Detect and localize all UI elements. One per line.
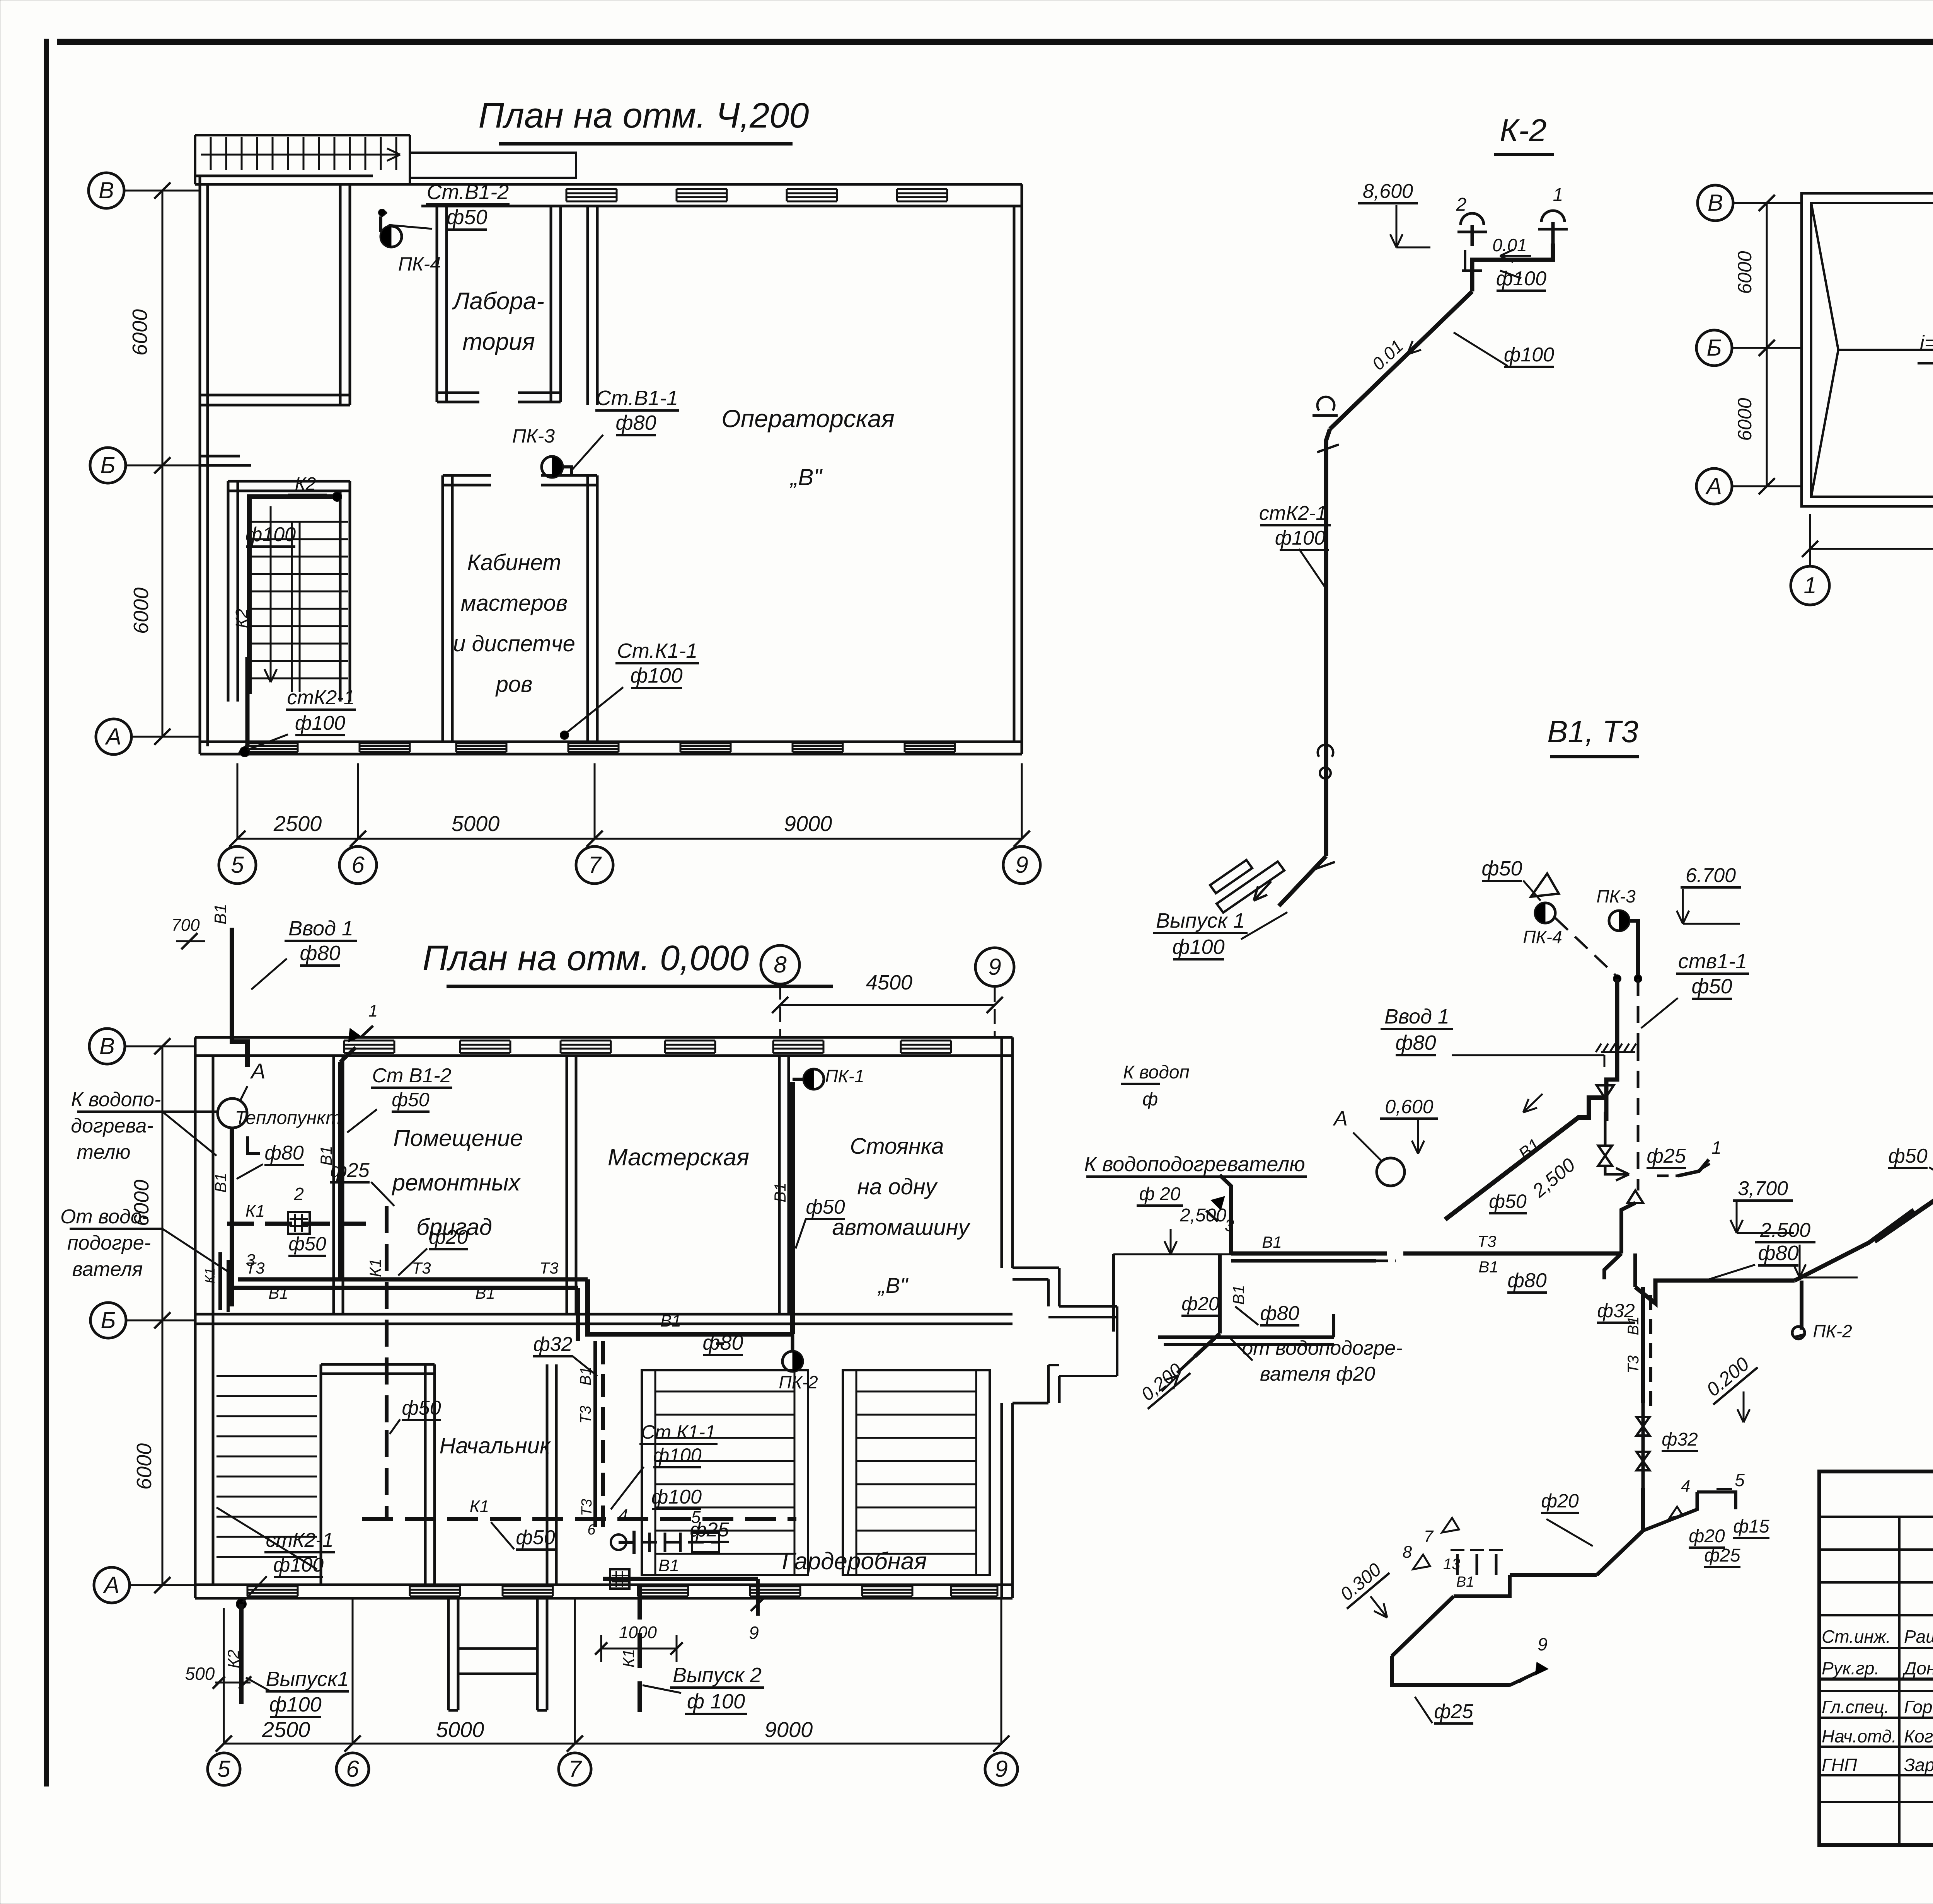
svg-text:6000: 6000 <box>128 309 152 356</box>
svg-text:„В": „В" <box>789 464 823 490</box>
svg-text:ф15: ф15 <box>1733 1516 1769 1537</box>
svg-text:ф100: ф100 <box>653 1444 701 1466</box>
svg-text:План на отм. 0,000: План на отм. 0,000 <box>423 938 749 978</box>
svg-text:ф: ф <box>1142 1089 1158 1110</box>
svg-text:Выпуск 2: Выпуск 2 <box>673 1664 762 1687</box>
svg-text:К-2: К-2 <box>1500 113 1546 148</box>
svg-text:ф80: ф80 <box>1395 1031 1436 1054</box>
svg-text:Мастерская: Мастерская <box>608 1144 749 1171</box>
svg-text:ПК-2: ПК-2 <box>1813 1321 1852 1341</box>
svg-text:Теплопункт: Теплопункт <box>235 1108 341 1128</box>
svg-text:ф20: ф20 <box>1541 1490 1579 1512</box>
svg-text:ф50: ф50 <box>1691 975 1732 998</box>
svg-text:Т3: Т3 <box>539 1259 558 1277</box>
svg-text:Зарецкий: Зарецкий <box>1904 1755 1933 1775</box>
svg-text:План на отм. Ч,200: План на отм. Ч,200 <box>478 96 809 135</box>
svg-text:Т3: Т3 <box>1625 1356 1642 1374</box>
svg-text:А: А <box>103 1572 119 1598</box>
svg-text:ф50: ф50 <box>1888 1145 1927 1167</box>
svg-text:ф25: ф25 <box>330 1159 370 1182</box>
svg-text:ф80: ф80 <box>1507 1269 1546 1292</box>
svg-text:и диспетче: и диспетче <box>453 631 575 656</box>
svg-text:13: 13 <box>1443 1556 1461 1573</box>
svg-text:В: В <box>99 1033 115 1059</box>
svg-text:ф20: ф20 <box>1181 1293 1219 1315</box>
svg-text:подогре-: подогре- <box>67 1232 151 1254</box>
svg-text:К1: К1 <box>245 1202 265 1221</box>
svg-text:Ст.В1-2: Ст.В1-2 <box>427 181 509 204</box>
svg-text:9: 9 <box>749 1623 759 1643</box>
svg-text:4: 4 <box>619 1506 628 1525</box>
svg-text:1: 1 <box>368 1001 378 1020</box>
svg-text:9: 9 <box>988 954 1001 980</box>
svg-text:Б: Б <box>100 452 115 478</box>
svg-text:телю: телю <box>77 1141 131 1163</box>
svg-text:ф100: ф100 <box>245 523 296 546</box>
svg-text:ф50: ф50 <box>806 1196 845 1218</box>
svg-text:К2: К2 <box>224 1650 242 1668</box>
svg-text:В1: В1 <box>211 904 230 925</box>
svg-text:Начальник: Начальник <box>440 1433 551 1458</box>
svg-text:8: 8 <box>1403 1543 1412 1562</box>
svg-text:4: 4 <box>1681 1477 1690 1496</box>
svg-text:В: В <box>1708 190 1723 216</box>
svg-text:ф100: ф100 <box>651 1486 702 1508</box>
svg-text:от водоподогре-: от водоподогре- <box>1242 1337 1402 1359</box>
svg-text:К водопо-: К водопо- <box>71 1088 161 1111</box>
svg-text:ПК-1: ПК-1 <box>825 1066 864 1086</box>
svg-text:Б: Б <box>101 1307 116 1333</box>
svg-text:От водо-: От водо- <box>60 1206 148 1228</box>
svg-text:2500: 2500 <box>273 811 322 836</box>
svg-text:ф100: ф100 <box>630 664 682 687</box>
svg-text:2500: 2500 <box>262 1717 310 1742</box>
svg-text:5: 5 <box>217 1756 230 1782</box>
svg-text:Донская: Донская <box>1902 1658 1933 1678</box>
svg-text:К1: К1 <box>470 1497 489 1516</box>
svg-text:ф100: ф100 <box>273 1554 324 1576</box>
svg-text:6: 6 <box>587 1522 596 1538</box>
svg-text:1000: 1000 <box>619 1623 657 1642</box>
svg-text:2: 2 <box>1456 194 1467 215</box>
svg-text:6.700: 6.700 <box>1686 864 1736 887</box>
svg-text:ф100: ф100 <box>295 712 345 734</box>
svg-text:6000: 6000 <box>1734 398 1756 441</box>
svg-text:ф32: ф32 <box>1662 1429 1698 1450</box>
svg-text:ф50: ф50 <box>1489 1190 1527 1212</box>
svg-text:В1: В1 <box>660 1311 681 1330</box>
svg-text:ПК-3: ПК-3 <box>512 425 555 447</box>
svg-text:6000: 6000 <box>130 588 153 634</box>
svg-text:„В": „В" <box>878 1273 909 1298</box>
svg-text:ф50: ф50 <box>288 1233 326 1255</box>
svg-text:9: 9 <box>1015 852 1028 878</box>
svg-text:i=0,005: i=0,005 <box>1920 331 1933 354</box>
svg-text:7: 7 <box>588 852 602 878</box>
svg-text:8,600: 8,600 <box>1363 180 1413 203</box>
svg-text:5000: 5000 <box>436 1717 484 1742</box>
svg-text:2.500: 2.500 <box>1760 1219 1810 1242</box>
svg-text:700: 700 <box>171 916 200 935</box>
svg-text:8: 8 <box>774 952 787 978</box>
svg-text:ф32: ф32 <box>533 1333 572 1356</box>
svg-text:Коган: Коган <box>1904 1726 1933 1746</box>
svg-text:ПК-4: ПК-4 <box>1523 927 1562 947</box>
svg-text:6: 6 <box>351 852 365 878</box>
svg-text:ф32: ф32 <box>1597 1300 1635 1322</box>
svg-text:0,600: 0,600 <box>1385 1096 1433 1117</box>
svg-text:ф50: ф50 <box>392 1089 430 1110</box>
svg-text:Ст К1-1: Ст К1-1 <box>641 1421 716 1443</box>
svg-text:1: 1 <box>1711 1138 1722 1158</box>
svg-text:ф80: ф80 <box>615 411 656 434</box>
svg-text:ф80: ф80 <box>1758 1242 1798 1265</box>
svg-text:ф50: ф50 <box>447 206 487 229</box>
svg-text:ф20: ф20 <box>1689 1526 1725 1546</box>
svg-text:К1: К1 <box>366 1259 384 1277</box>
svg-text:В1: В1 <box>1478 1258 1498 1276</box>
svg-text:ф25: ф25 <box>1434 1700 1473 1723</box>
svg-text:догрева-: догрева- <box>71 1115 153 1137</box>
svg-text:В1: В1 <box>658 1556 679 1575</box>
svg-text:9: 9 <box>1538 1634 1548 1654</box>
svg-text:ф50: ф50 <box>402 1397 441 1419</box>
svg-text:тория: тория <box>462 329 535 355</box>
svg-text:Ст.К1-1: Ст.К1-1 <box>617 639 697 662</box>
svg-text:Операторская: Операторская <box>721 405 895 433</box>
svg-text:ф80: ф80 <box>1260 1302 1299 1325</box>
svg-text:В1: В1 <box>1229 1285 1248 1305</box>
svg-text:Т3: Т3 <box>1477 1232 1496 1250</box>
svg-text:К водоп: К водоп <box>1123 1062 1190 1083</box>
svg-text:К2: К2 <box>295 474 316 494</box>
svg-text:9: 9 <box>995 1756 1007 1782</box>
svg-text:Выпуск 1: Выпуск 1 <box>1156 909 1245 932</box>
svg-text:Ввод 1: Ввод 1 <box>288 917 353 940</box>
svg-text:Помещение: Помещение <box>393 1125 523 1151</box>
svg-text:Рук.гр.: Рук.гр. <box>1822 1658 1879 1678</box>
svg-text:ф25: ф25 <box>1647 1145 1686 1167</box>
svg-text:Т3: Т3 <box>412 1259 431 1277</box>
svg-text:стК2-1: стК2-1 <box>287 686 355 709</box>
svg-text:7: 7 <box>568 1756 582 1782</box>
svg-text:ф100: ф100 <box>1172 935 1224 959</box>
svg-text:6000: 6000 <box>133 1443 156 1490</box>
svg-text:ф20: ф20 <box>429 1226 468 1248</box>
svg-text:ф100: ф100 <box>269 1693 321 1716</box>
svg-text:Нач.отд.: Нач.отд. <box>1822 1726 1897 1746</box>
svg-text:ПК-3: ПК-3 <box>1596 886 1636 906</box>
svg-text:7: 7 <box>1424 1527 1434 1546</box>
svg-text:ств1-1: ств1-1 <box>1678 950 1747 973</box>
svg-text:автомашину: автомашину <box>832 1215 970 1240</box>
svg-text:на одну: на одну <box>857 1174 938 1199</box>
svg-text:вателя: вателя <box>72 1258 143 1281</box>
svg-text:ров: ров <box>495 672 533 697</box>
svg-text:4500: 4500 <box>866 971 912 994</box>
svg-text:Гардеробная: Гардеробная <box>782 1548 927 1575</box>
svg-text:Рашкован: Рашкован <box>1904 1626 1933 1647</box>
svg-text:В1, Т3: В1, Т3 <box>1547 714 1638 749</box>
svg-text:ГНП: ГНП <box>1822 1755 1857 1775</box>
svg-text:9000: 9000 <box>765 1717 813 1742</box>
svg-text:Ввод 1: Ввод 1 <box>1384 1005 1449 1028</box>
svg-text:ф100: ф100 <box>1504 344 1554 366</box>
svg-text:3: 3 <box>246 1251 256 1270</box>
svg-text:ф 100: ф 100 <box>687 1690 745 1713</box>
svg-text:5000: 5000 <box>452 811 500 836</box>
svg-text:А: А <box>105 724 121 749</box>
svg-text:Б: Б <box>1706 335 1722 361</box>
svg-text:В1: В1 <box>771 1182 789 1202</box>
svg-text:ф80: ф80 <box>300 942 340 965</box>
svg-text:3: 3 <box>1225 1216 1234 1235</box>
svg-text:ф25: ф25 <box>1704 1545 1740 1566</box>
svg-text:ф50: ф50 <box>1481 857 1522 880</box>
svg-text:5: 5 <box>231 852 244 878</box>
svg-text:К водоподогревателю: К водоподогревателю <box>1084 1153 1305 1176</box>
svg-text:Гл.спец.: Гл.спец. <box>1822 1697 1889 1717</box>
svg-text:3,700: 3,700 <box>1738 1177 1788 1200</box>
svg-text:ф100: ф100 <box>1496 267 1546 290</box>
svg-text:ф25: ф25 <box>690 1519 729 1541</box>
svg-text:ПК-2: ПК-2 <box>779 1372 818 1392</box>
svg-text:вателя ф20: вателя ф20 <box>1260 1363 1375 1385</box>
svg-text:А: А <box>1333 1107 1348 1130</box>
svg-text:В1: В1 <box>1456 1574 1474 1590</box>
svg-text:Ст В1-2: Ст В1-2 <box>372 1064 451 1087</box>
svg-text:В1: В1 <box>475 1284 495 1302</box>
svg-text:6000: 6000 <box>1734 251 1756 294</box>
svg-text:500: 500 <box>185 1664 215 1684</box>
svg-text:В1: В1 <box>211 1173 230 1192</box>
svg-text:Ст.В1-1: Ст.В1-1 <box>596 387 678 410</box>
svg-text:Т3: Т3 <box>577 1406 594 1424</box>
svg-text:мастеров: мастеров <box>461 591 568 616</box>
svg-text:К1: К1 <box>619 1649 638 1667</box>
svg-text:Т3: Т3 <box>579 1499 595 1516</box>
svg-text:А: А <box>250 1059 265 1083</box>
svg-text:1: 1 <box>1553 185 1563 205</box>
svg-text:Кабинет: Кабинет <box>467 550 561 575</box>
svg-text:Ст.инж.: Ст.инж. <box>1822 1626 1891 1647</box>
svg-text:5: 5 <box>1735 1470 1745 1490</box>
svg-text:стК2-1: стК2-1 <box>1259 502 1327 525</box>
svg-text:ф50: ф50 <box>516 1526 555 1549</box>
svg-text:А: А <box>1705 473 1722 499</box>
svg-text:1: 1 <box>1803 572 1816 598</box>
svg-text:9000: 9000 <box>784 811 832 836</box>
svg-text:В1: В1 <box>268 1284 288 1302</box>
svg-text:Выпуск1: Выпуск1 <box>266 1667 349 1691</box>
svg-text:ф 20: ф 20 <box>1139 1184 1181 1204</box>
svg-text:ф100: ф100 <box>1275 527 1325 549</box>
svg-text:стК2-1: стК2-1 <box>266 1529 333 1551</box>
svg-text:В1: В1 <box>1262 1233 1282 1251</box>
svg-text:Лабора-: Лабора- <box>452 288 544 315</box>
svg-text:ф80: ф80 <box>264 1142 303 1164</box>
svg-text:2: 2 <box>293 1184 304 1204</box>
svg-text:В: В <box>99 177 114 203</box>
svg-text:К1: К1 <box>202 1267 218 1283</box>
svg-text:Стоянка: Стоянка <box>850 1134 944 1159</box>
svg-text:В1: В1 <box>317 1146 335 1165</box>
svg-text:ПК-4: ПК-4 <box>398 253 441 275</box>
svg-text:В1: В1 <box>577 1367 594 1386</box>
svg-text:Гороховский: Гороховский <box>1904 1697 1933 1717</box>
svg-text:К2: К2 <box>232 609 251 628</box>
svg-text:6: 6 <box>346 1756 359 1782</box>
svg-text:ремонтных: ремонтных <box>392 1170 521 1196</box>
